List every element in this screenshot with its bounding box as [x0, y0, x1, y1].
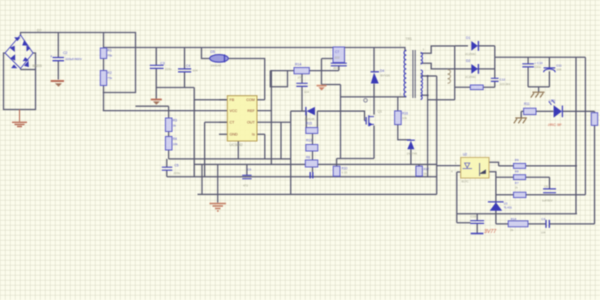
svg-text:D5: D5	[211, 50, 216, 54]
svg-text:1N4746: 1N4746	[407, 151, 418, 155]
svg-text:C5: C5	[175, 163, 179, 167]
svg-text:Is: Is	[252, 133, 255, 137]
svg-text:D?: D?	[37, 29, 42, 33]
svg-text:R16: R16	[402, 112, 408, 116]
svg-text:UC3842: UC3842	[230, 143, 243, 147]
svg-text:104: 104	[193, 69, 198, 73]
svg-text:C4: C4	[186, 64, 190, 68]
svg-text:C7: C7	[335, 50, 339, 54]
svg-text:R2: R2	[107, 71, 112, 75]
svg-text:C4: C4	[541, 217, 545, 221]
svg-text:104: 104	[556, 68, 561, 72]
svg-text:D4: D4	[380, 69, 384, 73]
svg-text:B8205: B8205	[33, 64, 42, 68]
svg-text:222: 222	[335, 55, 340, 59]
svg-text:REF: REF	[247, 109, 255, 113]
svg-text:C9: C9	[544, 185, 548, 189]
svg-text:1uF/50V: 1uF/50V	[542, 198, 553, 202]
svg-text:75k: 75k	[107, 76, 112, 80]
svg-text:R11: R11	[524, 102, 530, 106]
svg-text:R4: R4	[173, 137, 177, 141]
svg-text:104: 104	[541, 230, 546, 234]
svg-text:FB: FB	[230, 98, 235, 102]
svg-text:U2: U2	[463, 153, 467, 157]
svg-text:TR1: TR1	[406, 37, 413, 41]
svg-text:C10: C10	[471, 214, 477, 218]
svg-text:2CZ56C: 2CZ56C	[465, 52, 477, 56]
svg-text:1k: 1k	[173, 124, 177, 128]
svg-text:1k: 1k	[424, 172, 428, 176]
svg-text:104: 104	[304, 90, 309, 94]
svg-text:Q1: Q1	[378, 110, 383, 114]
svg-text:220uF/400V: 220uF/400V	[66, 57, 82, 61]
svg-text:2kV: 2kV	[333, 66, 338, 70]
svg-text:10k: 10k	[173, 142, 178, 146]
svg-text:LED: LED	[549, 99, 556, 103]
svg-text:10k: 10k	[402, 116, 407, 120]
svg-text:1N4148: 1N4148	[305, 117, 315, 121]
svg-text://RC 9F: //RC 9F	[548, 122, 562, 127]
svg-text:220u: 220u	[165, 67, 172, 71]
svg-text:D2: D2	[466, 59, 470, 63]
svg-text:R14: R14	[511, 217, 517, 221]
svg-text:C2: C2	[63, 51, 68, 55]
svg-text:TL431: TL431	[504, 206, 513, 210]
svg-text:C3: C3	[161, 62, 165, 66]
svg-text:R6: R6	[306, 156, 310, 160]
svg-text:COM: COM	[246, 98, 255, 102]
svg-text:220u: 220u	[534, 65, 541, 69]
svg-text:R13: R13	[306, 139, 312, 143]
svg-text:R8: R8	[515, 170, 519, 174]
svg-text:D1: D1	[466, 36, 470, 40]
svg-text:2CZ56C: 2CZ56C	[465, 75, 477, 79]
svg-text:R17: R17	[424, 167, 430, 171]
svg-text:GND: GND	[230, 133, 239, 137]
svg-text:3V77: 3V77	[484, 229, 497, 235]
svg-text:R14: R14	[295, 62, 301, 66]
svg-text:CT: CT	[230, 121, 236, 125]
svg-text:0.33: 0.33	[342, 170, 348, 174]
svg-text:103 2kV: 103 2kV	[500, 82, 511, 86]
svg-text:BYV26: BYV26	[381, 74, 391, 78]
svg-text:OUT: OUT	[247, 121, 256, 125]
svg-text:27k: 27k	[298, 76, 303, 80]
svg-text:R15: R15	[306, 122, 312, 126]
svg-text:R1: R1	[107, 49, 112, 53]
svg-text:+: +	[50, 54, 53, 59]
svg-text:C6: C6	[248, 168, 252, 172]
svg-text:VCC: VCC	[230, 109, 238, 113]
svg-text:472: 472	[243, 184, 248, 188]
svg-text:817C: 817C	[462, 179, 470, 183]
svg-text:R9: R9	[515, 158, 519, 162]
svg-text:75k: 75k	[107, 54, 112, 58]
svg-text:220u: 220u	[174, 171, 181, 175]
svg-text:1N4148: 1N4148	[211, 63, 222, 67]
svg-text:R3: R3	[173, 119, 177, 123]
